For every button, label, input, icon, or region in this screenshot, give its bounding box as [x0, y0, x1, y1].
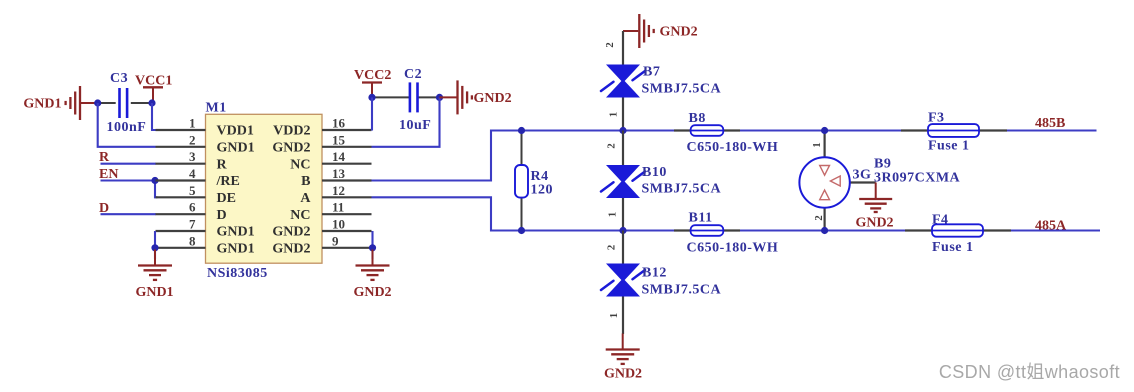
junction B9 bottom [821, 227, 828, 234]
svg-text:NC: NC [290, 208, 310, 223]
svg-text:GND2: GND2 [353, 285, 391, 300]
svg-text:D: D [99, 201, 109, 216]
svg-text:GND2: GND2 [660, 25, 698, 40]
pin 6 of M1 [156, 200, 206, 215]
svg-text:10: 10 [332, 217, 345, 232]
pin 7 of M1 [156, 217, 206, 232]
tvs diode B10 [601, 165, 645, 198]
wire B12 to GND2 [622, 297, 624, 335]
svg-text:B9: B9 [874, 157, 891, 172]
svg-text:GND1: GND1 [217, 225, 255, 240]
junction right of C3 / VCC1 [148, 99, 155, 106]
fuse B11 [691, 225, 724, 236]
wire net 485B [1007, 129, 1097, 131]
svg-text:2: 2 [606, 143, 618, 149]
wire net EN to pin 4 [101, 179, 157, 181]
svg-text:14: 14 [332, 149, 346, 164]
svg-text:Fuse 1: Fuse 1 [932, 240, 974, 255]
wire GND1 stub to junction [81, 102, 98, 104]
svg-text:1: 1 [608, 313, 620, 319]
resistor R4 [515, 165, 528, 198]
wire GND1 to pin 2 [98, 103, 156, 147]
wire C2 to pin 15 [372, 97, 440, 146]
wire GND2 to B7 [622, 31, 624, 65]
svg-text:CSDN @tt姐whaosoft: CSDN @tt姐whaosoft [939, 362, 1120, 382]
junction B9 top [821, 127, 828, 134]
wire top bus to B10 [622, 131, 624, 166]
junction left of C3 [94, 99, 101, 106]
pin 2 of M1 [156, 132, 206, 147]
pin 4 of M1 [156, 166, 206, 181]
wire VCC1 to pin 1 [152, 103, 156, 130]
fuse F4 pins [905, 229, 1011, 231]
resistor R4 leads [521, 131, 523, 231]
wire EN branch to pin 5 (DE) [155, 181, 158, 198]
svg-text:SMBJ7.5CA: SMBJ7.5CA [642, 282, 722, 297]
svg-text:VCC1: VCC1 [135, 74, 172, 89]
svg-text:8: 8 [189, 233, 196, 248]
wire pin7/8 to GND1 [154, 231, 156, 259]
svg-text:VDD1: VDD1 [217, 124, 254, 139]
pin 12 of M1 [322, 183, 372, 198]
pin 11 of M1 [322, 200, 372, 215]
pin 1 of M1 [156, 116, 206, 131]
svg-text:120: 120 [531, 183, 554, 198]
svg-text:Fuse 1: Fuse 1 [928, 139, 970, 154]
svg-text:NSi83085: NSi83085 [207, 266, 268, 281]
svg-text:M1: M1 [206, 101, 227, 116]
svg-text:VDD2: VDD2 [273, 124, 310, 139]
svg-text:7: 7 [189, 217, 196, 232]
wire pin 12 (A) to bottom bus [372, 197, 675, 230]
pin 15 of M1 [322, 132, 372, 147]
power port GND2 (right of C2) [440, 80, 472, 114]
junction EN branch [151, 177, 158, 184]
power port GND1 (below IC) [138, 250, 172, 280]
svg-text:VCC2: VCC2 [354, 68, 391, 83]
svg-text:F3: F3 [928, 111, 945, 126]
wire pin10/9 to GND2 [371, 231, 373, 259]
svg-text:100nF: 100nF [107, 120, 147, 135]
svg-text:B12: B12 [642, 266, 667, 281]
pin 10 of M1 [322, 217, 372, 232]
svg-text:SMBJ7.5CA: SMBJ7.5CA [642, 182, 722, 197]
svg-text:GND2: GND2 [272, 241, 310, 256]
svg-text:2: 2 [189, 132, 196, 147]
gas discharge tube B9 pins [825, 131, 876, 231]
svg-text:2: 2 [606, 244, 618, 250]
pin 8 of M1 [156, 233, 206, 248]
svg-text:13: 13 [332, 166, 346, 181]
svg-text:B7: B7 [643, 65, 660, 80]
svg-text:15: 15 [332, 132, 346, 147]
svg-text:C650-180-WH: C650-180-WH [687, 140, 779, 155]
fuse F3 pins [901, 129, 1007, 131]
pin 13 of M1 [322, 166, 372, 181]
svg-text:GND2: GND2 [474, 91, 512, 106]
wire net R to pin 3 [101, 163, 157, 165]
svg-text:GND2: GND2 [272, 225, 310, 240]
wire B11 to B9 (bottom) [740, 229, 905, 231]
svg-text:1: 1 [189, 116, 196, 131]
fuse B8 pins [674, 129, 740, 131]
svg-text:C3: C3 [110, 71, 128, 86]
svg-text:GND2: GND2 [855, 216, 893, 231]
wire B8 to B9 (top) [740, 129, 901, 131]
svg-text:9: 9 [332, 233, 339, 248]
svg-text:/RE: /RE [216, 174, 240, 189]
junction TVS bottom bus [619, 227, 626, 234]
fuse B11 pins [674, 229, 740, 231]
svg-text:11: 11 [332, 200, 344, 215]
pin 16 of M1 [322, 116, 372, 131]
svg-text:12: 12 [332, 183, 345, 198]
svg-text:2: 2 [813, 215, 825, 221]
svg-text:1: 1 [607, 212, 619, 218]
svg-text:EN: EN [99, 167, 118, 182]
svg-text:10uF: 10uF [399, 118, 431, 133]
svg-text:R: R [217, 157, 228, 172]
wire VCC2 to pin 16 [371, 97, 373, 130]
svg-text:B: B [301, 174, 310, 189]
pin 5 of M1 [156, 183, 206, 198]
svg-text:F4: F4 [932, 213, 949, 228]
tvs diode B7 [601, 65, 645, 98]
capacitor C3 [98, 88, 152, 118]
svg-text:SMBJ7.5CA: SMBJ7.5CA [642, 82, 722, 97]
junction R4 top [518, 127, 525, 134]
wire B10 to bottom bus [622, 198, 624, 231]
svg-text:C650-180-WH: C650-180-WH [687, 241, 779, 256]
junction R4 bottom [518, 227, 525, 234]
svg-text:GND1: GND1 [217, 140, 255, 155]
svg-text:5: 5 [189, 183, 196, 198]
svg-text:B11: B11 [689, 211, 713, 226]
power port GND2 (below IC) [356, 250, 390, 280]
svg-text:A: A [300, 191, 311, 206]
power port VCC2 [362, 83, 382, 98]
svg-text:2: 2 [604, 42, 616, 48]
svg-text:485B: 485B [1035, 116, 1065, 131]
fuse F3 [928, 124, 979, 137]
svg-text:GND1: GND1 [135, 285, 173, 300]
svg-text:4: 4 [189, 166, 196, 181]
svg-text:GND1: GND1 [217, 241, 255, 256]
wire bottom bus to B12 [622, 231, 624, 264]
svg-text:3: 3 [189, 149, 196, 164]
svg-text:GND2: GND2 [272, 140, 310, 155]
B9 arrester triangles [820, 166, 841, 200]
capacitor C2 [372, 82, 440, 112]
svg-text:1: 1 [811, 142, 823, 148]
svg-text:16: 16 [332, 116, 346, 131]
svg-text:3R097CXMA: 3R097CXMA [874, 171, 961, 186]
power port GND2 (top) [623, 14, 654, 48]
svg-text:C2: C2 [404, 67, 422, 82]
junction pin 9 [369, 244, 376, 251]
svg-text:485A: 485A [1035, 219, 1067, 234]
svg-text:D: D [217, 208, 227, 223]
svg-text:B8: B8 [689, 111, 706, 126]
pin 9 of M1 [322, 233, 372, 248]
wire net D to pin 6 [101, 213, 157, 215]
svg-text:6: 6 [189, 200, 196, 215]
svg-text:GND2: GND2 [604, 367, 642, 382]
svg-text:3G: 3G [853, 168, 872, 183]
svg-text:DE: DE [217, 191, 236, 206]
svg-text:GND1: GND1 [23, 97, 61, 112]
junction TVS top bus [619, 127, 626, 134]
svg-text:1: 1 [608, 112, 620, 118]
fuse F4 [932, 224, 983, 236]
wire pin 13 (B) to top bus [372, 131, 675, 181]
op-amp/IC M1 body [206, 114, 323, 263]
tvs diode B12 [601, 264, 645, 297]
junction VCC2 [368, 94, 375, 101]
power port GND1 (top left) [66, 86, 80, 120]
fuse B8 [691, 125, 724, 136]
power port GND2 (bottom) [606, 334, 640, 364]
wire net 485A [1011, 229, 1100, 231]
power port VCC1 [143, 87, 163, 103]
wire B7 to top bus [622, 98, 624, 131]
svg-text:NC: NC [290, 157, 310, 172]
svg-text:B10: B10 [642, 165, 667, 180]
pin 3 of M1 [156, 149, 206, 164]
gas discharge tube B9 [799, 157, 849, 207]
pin 14 of M1 [322, 149, 372, 164]
junction pin 8 [151, 244, 158, 251]
power port GND2 (at B9) [859, 183, 892, 213]
svg-text:R: R [99, 150, 110, 165]
junction C2 right [436, 94, 443, 101]
